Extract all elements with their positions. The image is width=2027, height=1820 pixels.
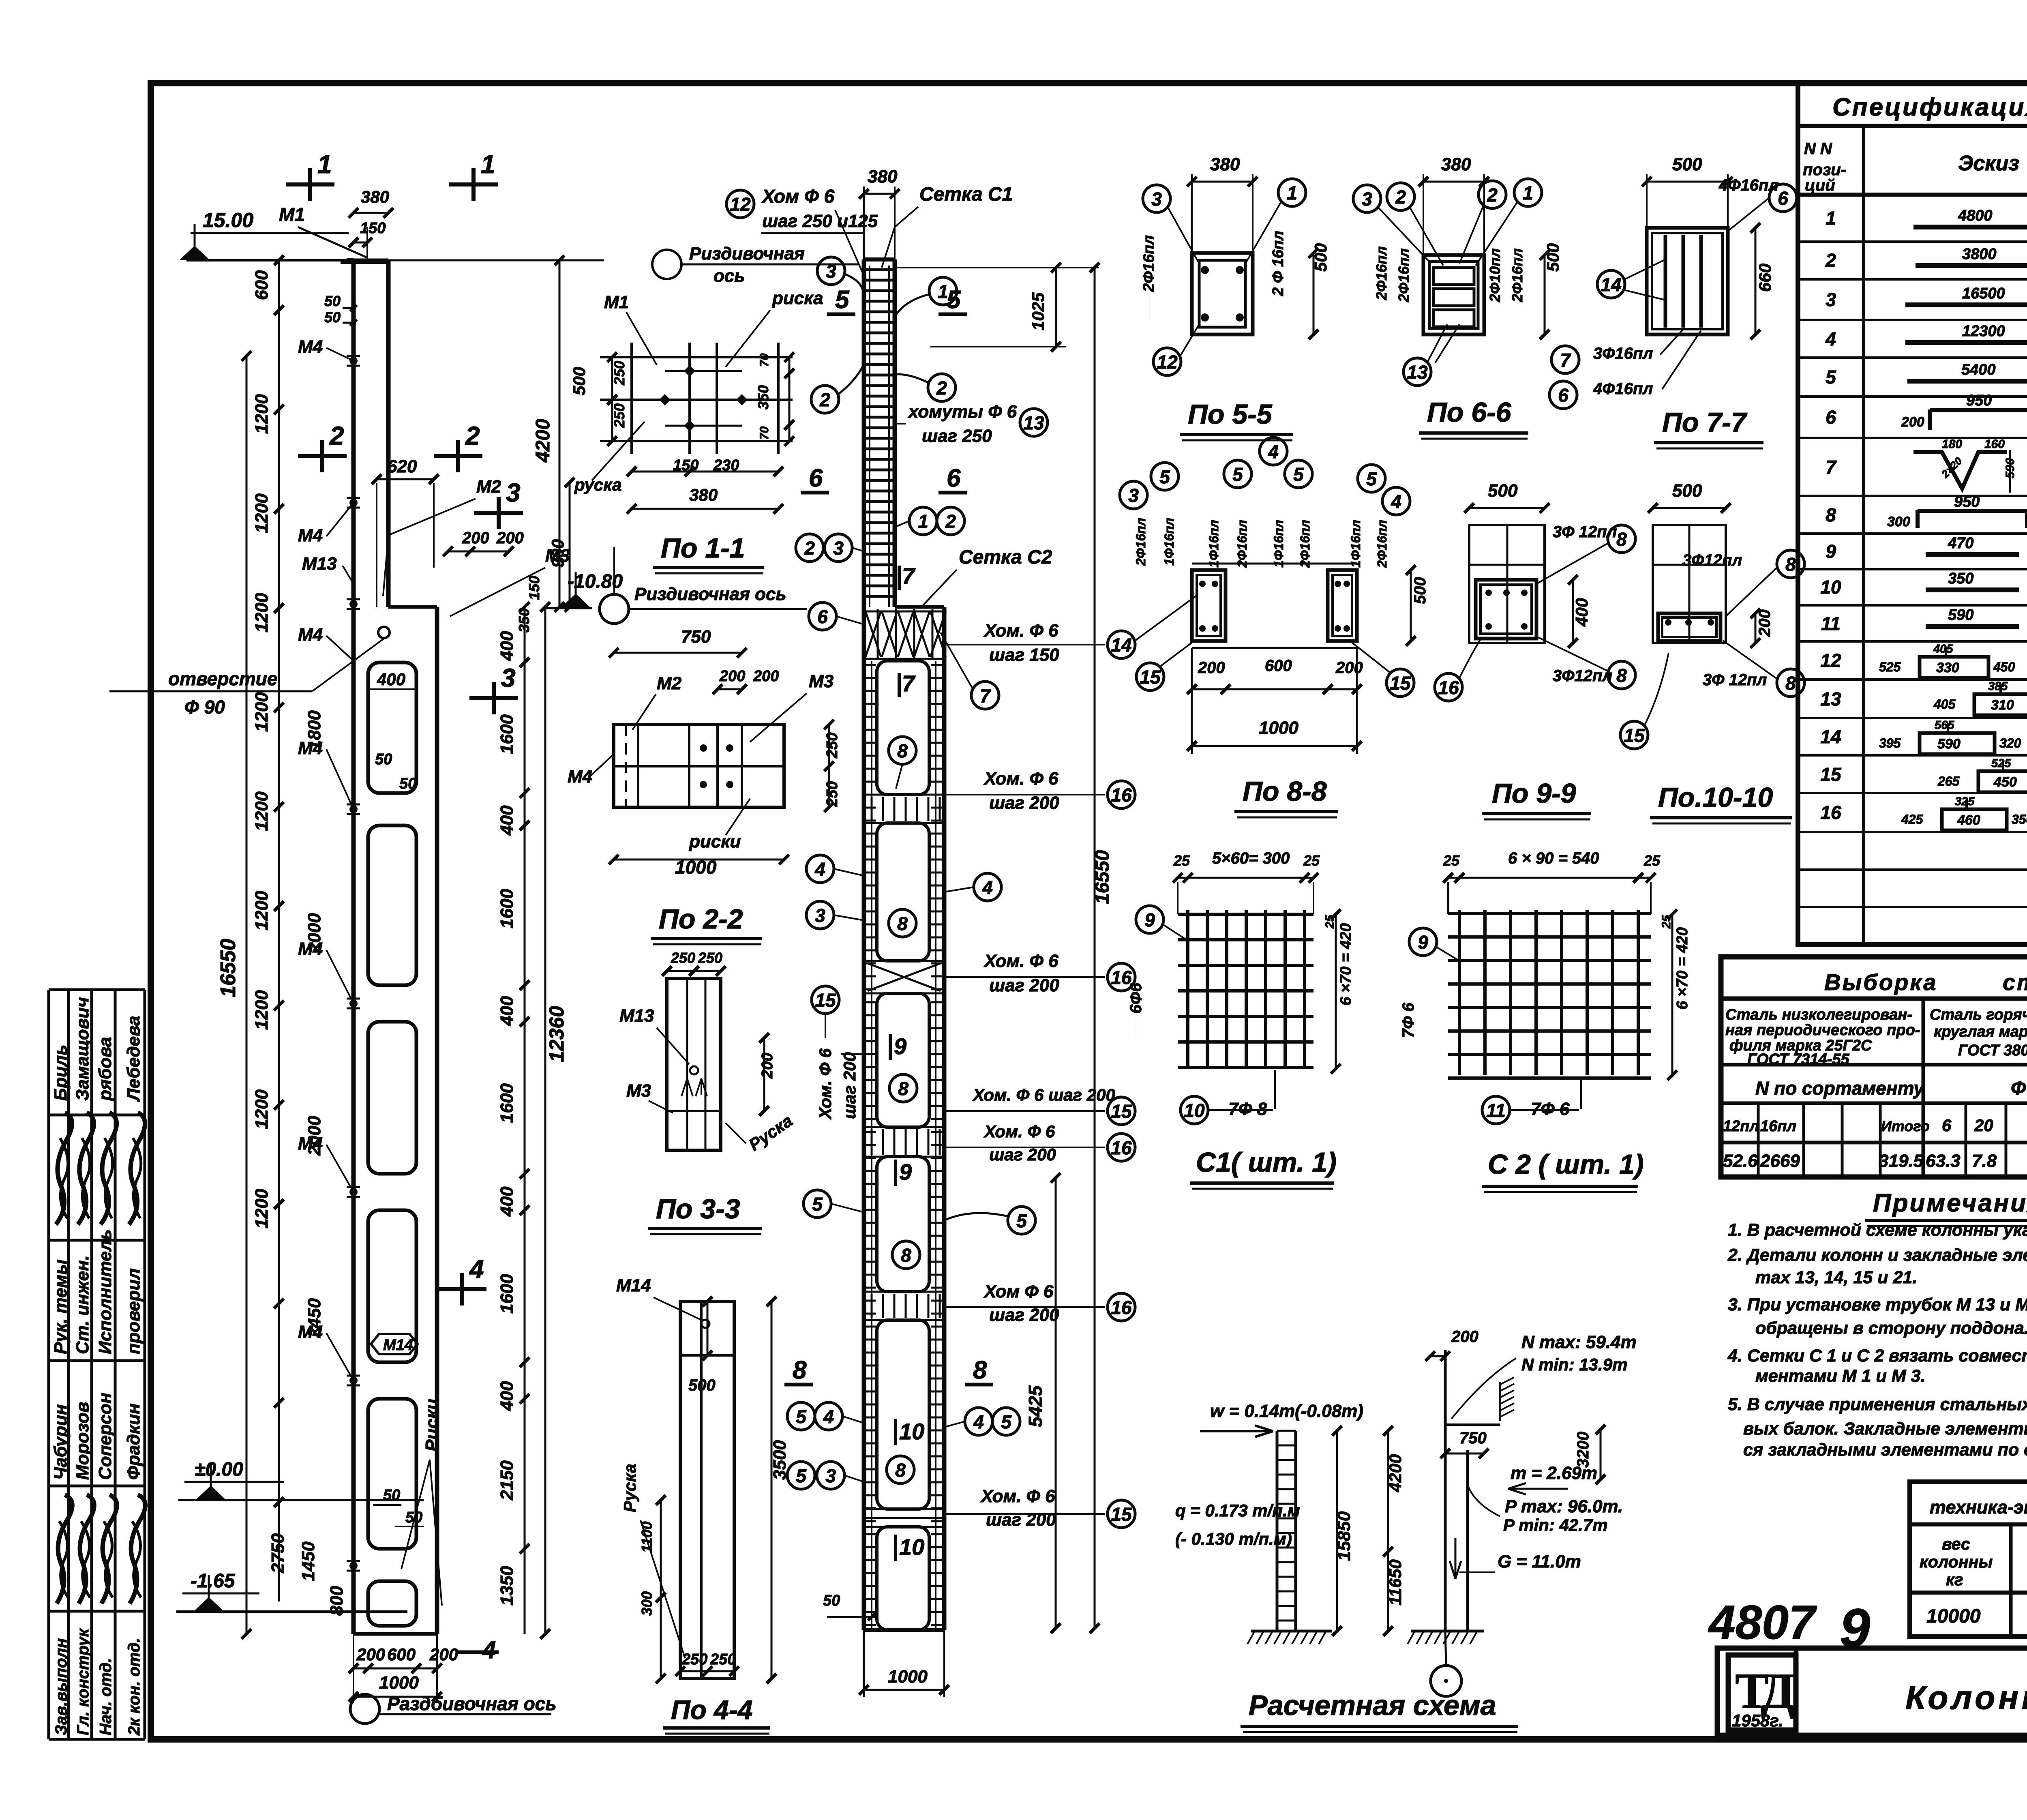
svg-text:2: 2: [329, 421, 344, 450]
svg-text:1200: 1200: [252, 1189, 272, 1228]
svg-text:шаг 200: шаг 200: [840, 1052, 859, 1119]
svg-text:1200: 1200: [252, 791, 272, 831]
svg-text:По 9-9: По 9-9: [1492, 778, 1576, 809]
hole label: [109, 627, 390, 718]
scheme axis circle: [1431, 1666, 1461, 1696]
svg-text:1Ф16пл: 1Ф16пл: [1348, 520, 1363, 568]
svg-text:1: 1: [1826, 208, 1836, 229]
svg-text:вых балок. Закладные элементы: вых балок. Закладные элементы М 1 и М 3 …: [1743, 1419, 2027, 1438]
svg-text:300: 300: [639, 1591, 655, 1616]
svg-text:250: 250: [698, 950, 722, 966]
inner chain 1800/2000: [268, 710, 347, 1616]
svg-text:600: 600: [1265, 657, 1292, 675]
svg-text:4Ф16пл: 4Ф16пл: [1593, 380, 1653, 398]
svg-text:По 4-4: По 4-4: [671, 1695, 753, 1725]
svg-text:Фрадкин: Фрадкин: [124, 1403, 144, 1480]
riski label bottom: [401, 1399, 442, 1606]
svg-text:ся закладными элементами по: ся закладными элементами по серии кэ-01-…: [1743, 1440, 2027, 1460]
svg-text:N max: 59.4т: N max: 59.4т: [1521, 1332, 1637, 1352]
svg-text:3Ф 12пл: 3Ф 12пл: [1703, 671, 1767, 689]
svg-text:Нач. отд.: Нач. отд.: [97, 1658, 115, 1735]
svg-text:70: 70: [758, 353, 771, 367]
svg-text:500: 500: [570, 367, 589, 395]
svg-text:проверил: проверил: [124, 1268, 144, 1354]
svg-text:15: 15: [1390, 673, 1411, 694]
svg-text:тах 13, 14, 15 и 21.: тах 13, 14, 15 и 21.: [1755, 1268, 1917, 1287]
svg-text:1000: 1000: [888, 1667, 928, 1687]
svg-text:11650: 11650: [1386, 1559, 1405, 1606]
svg-text:20: 20: [1974, 1116, 1993, 1135]
svg-text:4: 4: [973, 1411, 984, 1432]
svg-text:3: 3: [1151, 189, 1162, 210]
svg-text:470: 470: [1948, 535, 1973, 552]
svg-text:8: 8: [897, 913, 908, 934]
central column dims right: [823, 263, 1113, 1697]
svg-text:7: 7: [902, 563, 916, 589]
svg-text:4: 4: [469, 1254, 484, 1284]
svg-text:5×60= 300: 5×60= 300: [1212, 849, 1290, 867]
svg-text:565: 565: [1935, 719, 1954, 732]
title block: [1717, 1648, 2027, 1737]
svg-text:3800: 3800: [1962, 246, 1997, 263]
svg-text:590: 590: [1937, 736, 1961, 752]
circles 5 5: [804, 1190, 1035, 1234]
svg-text:2150: 2150: [497, 1460, 517, 1501]
svg-text:Чабурин: Чабурин: [51, 1404, 71, 1480]
svg-text:12300: 12300: [1962, 323, 2005, 340]
svg-text:15: 15: [1111, 1101, 1132, 1122]
svg-text:25: 25: [1660, 914, 1673, 929]
svg-text:1600: 1600: [497, 714, 517, 754]
svg-text:250: 250: [611, 403, 628, 428]
svg-text:385: 385: [1988, 680, 2008, 693]
svg-text:ментами М 1 и М 3.: ментами М 1 и М 3.: [1755, 1366, 1925, 1386]
svg-text:63.3: 63.3: [1926, 1151, 1961, 1171]
svg-text:шаг 200: шаг 200: [986, 1510, 1056, 1530]
svg-text:Соперсон: Соперсон: [95, 1393, 115, 1480]
svg-text:По 2-2: По 2-2: [659, 904, 743, 935]
svg-text:250: 250: [671, 950, 695, 966]
svg-text:8: 8: [1785, 673, 1796, 694]
svg-text:525: 525: [1879, 660, 1901, 674]
svg-text:150: 150: [526, 576, 542, 600]
mesh C2: [1399, 849, 1691, 1124]
circles 4 4 3 8 mid: [806, 855, 1001, 937]
svg-text:5. В случае применения ста: 5. В случае применения стальных ферм и п…: [1728, 1395, 2027, 1414]
svg-text:50: 50: [324, 293, 341, 309]
svg-text:±0.00: ±0.00: [195, 1459, 243, 1480]
label По 2-2: [651, 904, 762, 944]
svg-text:180: 180: [1942, 437, 1962, 451]
svg-text:вес: вес: [1942, 1535, 1970, 1553]
svg-text:14: 14: [1111, 635, 1131, 656]
svg-text:350: 350: [516, 608, 532, 632]
svg-text:600: 600: [252, 270, 272, 300]
svg-text:5400: 5400: [1961, 361, 1996, 378]
svg-text:2к кон. отд.: 2к кон. отд.: [125, 1638, 143, 1736]
svg-text:1000: 1000: [1259, 718, 1298, 738]
label Сетка С1: [882, 184, 1013, 268]
svg-text:P min: 42.7т: P min: 42.7т: [1503, 1516, 1608, 1535]
svg-text:Хом. Ф 6: Хом. Ф 6: [980, 1486, 1055, 1506]
svg-text:М13: М13: [619, 1006, 654, 1026]
sheet number 4807 9: [1708, 1596, 1870, 1659]
svg-text:8: 8: [1616, 665, 1627, 686]
svg-text:9: 9: [1418, 932, 1428, 953]
head crosshatch band: [864, 609, 946, 659]
svg-text:6 ×70 = 420: 6 ×70 = 420: [1337, 923, 1354, 1005]
svg-text:25: 25: [1643, 852, 1661, 869]
5425 aux: [0, 0, 0, 0]
svg-text:3200: 3200: [1574, 1432, 1592, 1468]
svg-text:200: 200: [1451, 1328, 1478, 1346]
svg-text:350: 350: [755, 385, 771, 409]
svg-text:стали: стали: [2003, 969, 2027, 995]
elevation openings: [368, 662, 416, 1626]
svg-text:Сетка С1: Сетка С1: [919, 184, 1013, 205]
central column openings and bands: [864, 661, 944, 1630]
label M13: [302, 554, 354, 584]
svg-text:50: 50: [823, 1592, 840, 1609]
dim chain 600/1200: [252, 255, 284, 1601]
svg-text:16550: 16550: [1092, 850, 1113, 904]
svg-text:4: 4: [1391, 491, 1401, 512]
svg-text:ТД: ТД: [1735, 1663, 1795, 1719]
svg-text:7Ф 6: 7Ф 6: [1531, 1099, 1570, 1119]
svg-text:13: 13: [1407, 362, 1428, 383]
circles 2 3 / 1 2: [796, 507, 964, 562]
svg-text:14: 14: [1820, 726, 1841, 747]
opening dims 400 50: [368, 670, 424, 1526]
svg-text:Рук. темы: Рук. темы: [51, 1259, 71, 1354]
svg-text:590: 590: [1948, 607, 1973, 624]
label По 3-3: [648, 1194, 762, 1234]
svg-text:6: 6: [1942, 1116, 1952, 1135]
svg-text:4200: 4200: [532, 419, 554, 463]
svg-text:С 2 ( шт. 1): С 2 ( шт. 1): [1488, 1149, 1644, 1180]
label По 4-4: [663, 1695, 770, 1734]
svg-text:330: 330: [1936, 660, 1959, 675]
svg-text:500: 500: [1543, 243, 1562, 272]
label M1: [279, 204, 367, 257]
svg-text:3Ф12пл: 3Ф12пл: [1682, 551, 1742, 569]
svg-text:4200: 4200: [1386, 1454, 1405, 1492]
svg-text:25: 25: [1323, 914, 1337, 929]
left column elevation outline: [341, 260, 437, 1634]
callout 16 (2410): [944, 951, 1135, 995]
svg-text:8: 8: [793, 1356, 807, 1384]
spec table armature: [1798, 83, 2027, 945]
svg-text:1200: 1200: [252, 394, 272, 434]
cut marks 1 2 3 4: [286, 150, 523, 1664]
svg-text:7Ф 6: 7Ф 6: [1399, 1002, 1417, 1038]
svg-text:8: 8: [898, 1078, 909, 1099]
svg-text:3: 3: [501, 663, 516, 692]
axis circle bottom left: [350, 1693, 557, 1724]
svg-text:шаг 150: шаг 150: [989, 645, 1059, 665]
svg-text:М4: М4: [298, 1134, 323, 1153]
svg-text:5: 5: [1159, 466, 1170, 487]
svg-text:3: 3: [1826, 289, 1836, 310]
svg-text:380: 380: [1441, 154, 1471, 174]
svg-text:25: 25: [1173, 852, 1190, 869]
svg-text:50: 50: [399, 775, 416, 792]
svg-text:М2: М2: [657, 673, 682, 693]
notes title: [1865, 1189, 2027, 1226]
svg-text:16: 16: [1820, 802, 1841, 823]
svg-text:350: 350: [1948, 570, 1973, 587]
svg-text:7.8: 7.8: [1972, 1151, 1997, 1171]
9 marks: [889, 1033, 920, 1269]
section По 2-2: [568, 627, 841, 878]
svg-text:3: 3: [815, 905, 825, 926]
scheme right column: [1425, 1328, 1514, 1666]
svg-text:1000: 1000: [379, 1673, 419, 1693]
svg-text:N по сортаменту: N по сортаменту: [1755, 1078, 1925, 1099]
svg-text:8: 8: [897, 740, 908, 761]
svg-text:500: 500: [1488, 481, 1518, 501]
svg-text:3: 3: [833, 538, 844, 559]
svg-text:4: 4: [1268, 441, 1279, 462]
svg-text:6: 6: [947, 464, 961, 492]
svg-text:200: 200: [356, 1645, 385, 1664]
svg-text:4: 4: [482, 1636, 496, 1664]
svg-text:5: 5: [835, 286, 850, 314]
svg-text:2: 2: [804, 538, 815, 559]
svg-text:Расчетная схема: Расчетная схема: [1249, 1689, 1496, 1721]
svg-text:250: 250: [681, 1651, 707, 1668]
svg-text:7: 7: [902, 671, 916, 696]
svg-text:1600: 1600: [497, 1274, 517, 1314]
M4 anchor points on edge: [347, 356, 360, 1571]
svg-text:16пл: 16пл: [1760, 1118, 1796, 1135]
svg-text:400: 400: [1572, 598, 1591, 627]
svg-text:425: 425: [1901, 812, 1924, 827]
svg-text:2: 2: [1395, 187, 1406, 208]
svg-text:2: 2: [1825, 250, 1836, 271]
svg-text:шаг 200: шаг 200: [989, 1305, 1059, 1325]
svg-text:М4: М4: [298, 939, 323, 959]
M14 marker: [371, 1334, 418, 1354]
svg-text:16550: 16550: [216, 939, 240, 997]
section По 1-1: [570, 288, 823, 514]
shaft ladder hatch: [865, 270, 894, 596]
svg-text:52.6: 52.6: [1723, 1151, 1758, 1171]
svg-text:12: 12: [1157, 352, 1178, 373]
level -1.65: [176, 1570, 407, 1612]
signatures: [56, 1113, 145, 1603]
svg-text:400: 400: [497, 996, 517, 1026]
dims 380 150 above column: [349, 187, 393, 264]
svg-text:кг: кг: [1946, 1570, 1963, 1589]
tech-econ table: [1910, 1482, 2027, 1637]
svg-text:7: 7: [1560, 349, 1571, 371]
svg-text:12: 12: [1820, 650, 1841, 671]
svg-text:3: 3: [1362, 189, 1372, 210]
svg-text:Колонна КДI-31: Колонна КДI-31: [1905, 1679, 2027, 1716]
svg-text:М4: М4: [298, 625, 323, 645]
svg-text:750: 750: [681, 627, 711, 647]
svg-text:380: 380: [1210, 154, 1240, 174]
label По 6-6: [1419, 397, 1528, 439]
dim 750 top: [399, 454, 400, 454]
right chains 400/1600: [497, 602, 529, 1634]
svg-text:200: 200: [1335, 659, 1363, 677]
svg-text:150: 150: [360, 220, 386, 237]
svg-text:395: 395: [1879, 736, 1901, 750]
svg-text:2Ф10пл: 2Ф10пл: [1487, 248, 1503, 302]
svg-text:По 7-7: По 7-7: [1662, 407, 1748, 438]
svg-text:13: 13: [1023, 412, 1044, 433]
svg-text:2Ф16пл: 2Ф16пл: [1235, 520, 1249, 568]
svg-text:12360: 12360: [545, 1006, 568, 1062]
svg-text:8: 8: [1826, 504, 1836, 525]
svg-text:2Ф16пл: 2Ф16пл: [1133, 518, 1148, 566]
svg-text:2: 2: [936, 377, 947, 399]
svg-text:отверстие: отверстие: [168, 668, 278, 689]
svg-text:10000: 10000: [1926, 1606, 1981, 1627]
svg-text:Лебедева: Лебедева: [124, 1016, 144, 1102]
svg-text:рябова: рябова: [95, 1037, 115, 1101]
steel selection table: [1721, 957, 2027, 1177]
svg-text:w = 0.14т(-0.08т): w = 0.14т(-0.08т): [1210, 1401, 1363, 1421]
label По 10-10: [1650, 782, 1792, 823]
section По 4-4: [616, 1276, 790, 1683]
svg-text:12пл: 12пл: [1723, 1118, 1759, 1135]
svg-text:6: 6: [809, 464, 823, 492]
w arrow: [1200, 1401, 1363, 1437]
svg-text:8: 8: [901, 1245, 911, 1266]
svg-text:2750: 2750: [268, 1533, 288, 1573]
signature stamp (rotated titles): [49, 990, 145, 1739]
svg-text:По 6-6: По 6-6: [1427, 397, 1512, 428]
svg-text:Хом Ф 6: Хом Ф 6: [761, 186, 835, 207]
svg-text:5: 5: [947, 286, 961, 314]
svg-text:10: 10: [899, 1534, 924, 1560]
svg-text:319.5: 319.5: [1879, 1151, 1924, 1171]
svg-text:15850: 15850: [1334, 1511, 1354, 1561]
svg-text:750: 750: [1459, 1429, 1487, 1447]
svg-text:1100: 1100: [639, 1522, 655, 1553]
svg-text:2: 2: [945, 511, 956, 532]
svg-text:15.00: 15.00: [203, 209, 253, 232]
svg-text:3: 3: [826, 261, 836, 282]
svg-text:1: 1: [317, 150, 332, 179]
level 0.00: [178, 1459, 424, 1500]
svg-text:обращены в сторону поддона.: обращены в сторону поддона.: [1755, 1318, 2027, 1338]
svg-text:колонны: колонны: [1920, 1552, 1993, 1571]
svg-text:230: 230: [713, 457, 739, 474]
svg-text:265: 265: [1937, 774, 1960, 789]
level 15.00: [179, 209, 354, 260]
svg-text:200: 200: [462, 529, 489, 547]
notes text: [1727, 1220, 2027, 1460]
svg-text:200: 200: [759, 1053, 776, 1079]
svg-text:(- 0.130 т/п.м): (- 0.130 т/п.м): [1175, 1529, 1292, 1548]
svg-text:4: 4: [982, 877, 993, 898]
svg-text:N min: 13.9т: N min: 13.9т: [1521, 1355, 1627, 1374]
svg-text:хомуты Ф 6: хомуты Ф 6: [908, 402, 1017, 422]
svg-text:Риски: Риски: [422, 1399, 442, 1451]
svg-text:5: 5: [1366, 468, 1377, 489]
svg-text:1. В расчетной схеме колонны: 1. В расчетной схеме колонны указана рас…: [1728, 1220, 2027, 1240]
svg-text:1: 1: [481, 150, 495, 179]
svg-text:16: 16: [1111, 1297, 1132, 1318]
svg-text:Хом. Ф 6: Хом. Ф 6: [816, 1048, 835, 1120]
svg-text:ная периодического про-: ная периодического про-: [1725, 1022, 1920, 1039]
svg-text:900: 900: [548, 539, 567, 568]
svg-text:4800: 4800: [1958, 207, 1993, 224]
svg-text:5: 5: [812, 1194, 823, 1215]
svg-text:5: 5: [1293, 464, 1304, 485]
svg-text:Ст. инжен.: Ст. инжен.: [73, 1255, 92, 1354]
svg-text:1450: 1450: [298, 1541, 318, 1581]
scheme dims left: [1332, 1426, 1405, 1636]
svg-text:1Ф16пл: 1Ф16пл: [1162, 518, 1176, 566]
svg-text:620: 620: [387, 457, 417, 476]
svg-text:380: 380: [361, 187, 389, 206]
svg-text:ций: ций: [1805, 176, 1835, 194]
svg-text:Риздивочная: Риздивочная: [689, 244, 805, 264]
svg-text:200: 200: [1198, 659, 1225, 677]
svg-text:2Ф16пл: 2Ф16пл: [1395, 248, 1412, 302]
svg-text:6: 6: [1826, 407, 1836, 428]
svg-text:1200: 1200: [252, 891, 272, 930]
svg-text:Хом. Ф 6: Хом. Ф 6: [983, 951, 1058, 971]
svg-text:Риздивочная ось: Риздивочная ось: [634, 584, 786, 604]
svg-text:1200: 1200: [252, 1089, 272, 1129]
svg-text:9: 9: [899, 1159, 912, 1185]
label C2: [1482, 1149, 1644, 1192]
label C1: [1190, 1147, 1337, 1189]
svg-text:2: 2: [1487, 184, 1498, 206]
svg-text:1350: 1350: [497, 1566, 517, 1606]
svg-text:G = 11.0т: G = 11.0т: [1498, 1552, 1581, 1571]
section По 8-8: [1120, 437, 1429, 754]
svg-text:11: 11: [1486, 1100, 1506, 1121]
svg-text:8: 8: [895, 1460, 906, 1481]
svg-text:ГОСТ 7314-55: ГОСТ 7314-55: [1747, 1051, 1849, 1068]
svg-text:2Ф16пл: 2Ф16пл: [1373, 246, 1390, 300]
svg-text:15: 15: [1140, 667, 1161, 688]
svg-text:950: 950: [1966, 392, 1992, 409]
svg-text:325: 325: [1955, 795, 1975, 808]
section По 5-5: [1140, 154, 1330, 375]
svg-text:Замащович: Замащович: [73, 997, 92, 1101]
svg-text:200: 200: [496, 529, 524, 547]
svg-text:50: 50: [383, 1487, 400, 1504]
svg-text:1Ф16пл: 1Ф16пл: [1271, 520, 1286, 568]
svg-text:Зав.выполн: Зав.выполн: [52, 1638, 70, 1735]
label По 1-1: [653, 533, 764, 573]
svg-text:1200: 1200: [252, 493, 272, 533]
svg-text:380: 380: [868, 167, 898, 187]
svg-text:1600: 1600: [497, 889, 517, 928]
svg-text:N N: N N: [1804, 140, 1832, 158]
svg-text:400: 400: [497, 805, 517, 836]
svg-text:руска: руска: [574, 475, 621, 494]
svg-text:5: 5: [1826, 367, 1836, 388]
svg-text:По 8-8: По 8-8: [1243, 776, 1327, 807]
q label: [1175, 1501, 1300, 1548]
bottom dims left elevation: [349, 1634, 458, 1703]
svg-text:6 × 90 = 540: 6 × 90 = 540: [1508, 849, 1599, 867]
svg-text:950: 950: [1954, 493, 1980, 510]
svg-text:шаг 250: шаг 250: [922, 426, 992, 446]
svg-text:Выборка: Выборка: [1824, 969, 1938, 995]
svg-text:Бриль: Бриль: [51, 1045, 71, 1101]
svg-text:М3: М3: [626, 1081, 651, 1101]
